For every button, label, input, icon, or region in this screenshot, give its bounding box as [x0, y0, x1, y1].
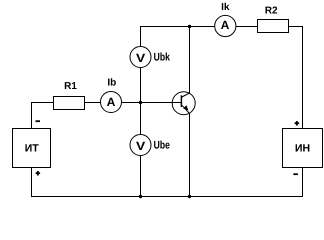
- resistor R1: [54, 97, 85, 110]
- voltmeter Ube: [130, 135, 151, 156]
- label Ib: [108, 78, 116, 85]
- label Ubk: [154, 53, 170, 61]
- wire Ube to bottom rail: [140, 156, 142, 198]
- wire emitter vertical: [189, 114, 191, 198]
- source IN box: [283, 129, 323, 168]
- wire Ubk top vertical: [140, 26, 142, 47]
- transistor Q1 (NPN): [171, 92, 195, 115]
- node junction dot (base/Ubk cross): [139, 101, 142, 104]
- wire R2 to right corner: [289, 26, 304, 28]
- node junction dot (bottom rail / emitter): [188, 195, 191, 198]
- wire collector vertical: [189, 26, 191, 94]
- resistor R2: [258, 20, 289, 33]
- polarity plus (IN top): [295, 121, 300, 126]
- wire left vertical bottom (IT to bottom rail): [31, 168, 33, 198]
- wire Ubk to Ube vertical: [140, 68, 142, 135]
- ammeter Ib: [101, 92, 122, 113]
- label Ik: [222, 3, 230, 10]
- label IT: [25, 144, 38, 151]
- wire R1 to ammeter Ib: [85, 102, 101, 104]
- polarity plus (IT bottom): [36, 171, 41, 176]
- source IT box: [13, 129, 51, 168]
- node junction dot (bottom rail / Ube): [139, 195, 142, 198]
- wire right vertical top (to IN): [302, 26, 304, 129]
- node junction dot (top rail / collector): [188, 25, 191, 28]
- label R2: [265, 7, 277, 14]
- wire bottom rail: [31, 196, 303, 198]
- label Ube: [154, 141, 169, 149]
- ammeter Ik: [215, 15, 236, 36]
- wire right vertical bottom (IN to bottom rail): [302, 168, 304, 198]
- wire ammeter Ib to transistor base: [122, 102, 182, 104]
- wire ammeter Ik to R2: [236, 26, 258, 28]
- voltmeter Ubk: [130, 47, 151, 68]
- wire left vertical top (IT to main wire): [31, 102, 33, 129]
- label IN: [296, 144, 310, 151]
- polarity minus (IN bottom): [293, 173, 298, 175]
- polarity minus (IT top): [36, 120, 41, 122]
- label R1: [65, 82, 77, 89]
- wire main horizontal left (corner to R1): [31, 102, 54, 104]
- wire top rail left segment: [140, 26, 215, 28]
